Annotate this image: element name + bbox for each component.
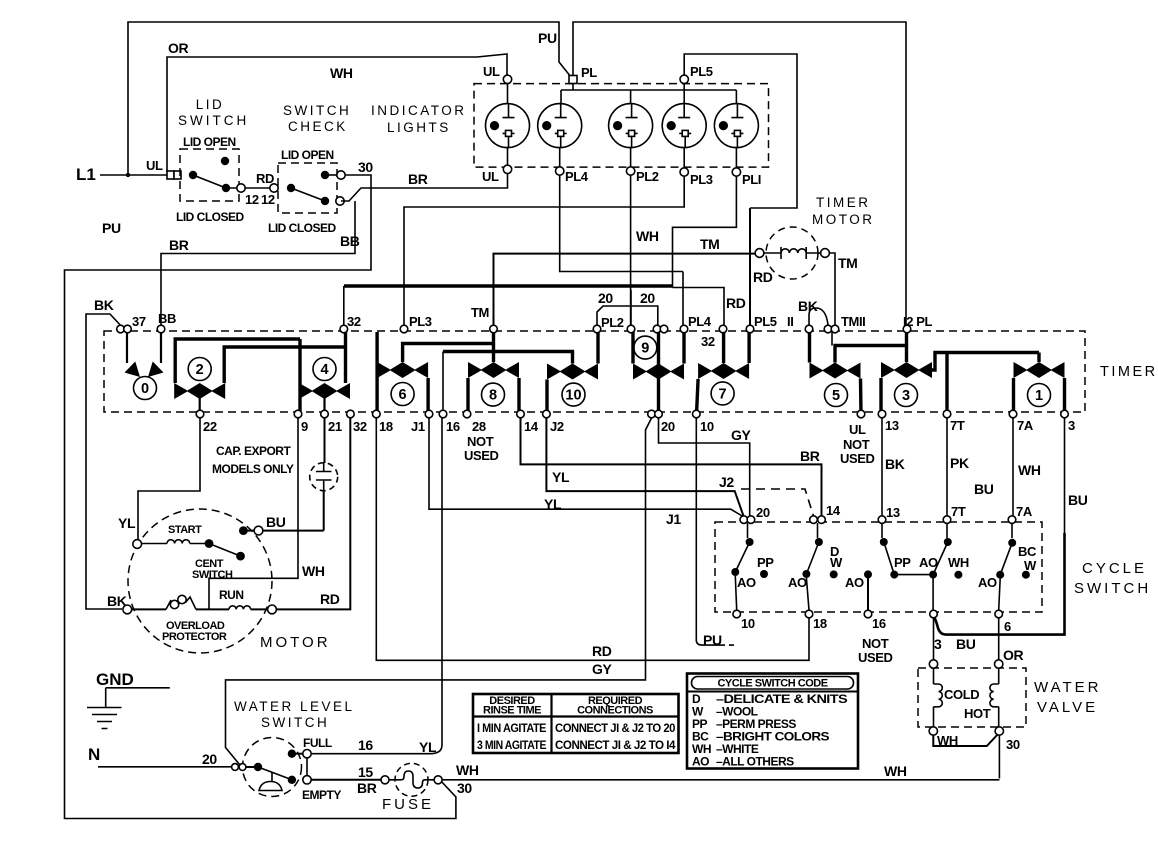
svg-text:RD: RD [320, 591, 340, 607]
wire 7T to cycle 7T [946, 418, 948, 516]
timer bottom terminal J2 [543, 410, 551, 418]
svg-text:10: 10 [741, 616, 755, 631]
timer top terminal PL2 [593, 325, 601, 333]
wire RD (timer terminal to junction) [673, 288, 725, 326]
water valve cold solenoid [934, 668, 943, 731]
svg-text:GND: GND [96, 670, 134, 689]
svg-text:BC: BC [1018, 544, 1037, 559]
timer top terminal PL5 [746, 325, 754, 333]
timer top terminal PL4 [680, 325, 688, 333]
svg-text:9: 9 [641, 341, 649, 357]
svg-text:WH: WH [636, 228, 659, 244]
timer contact 7 [697, 329, 750, 414]
svg-text:BK: BK [885, 456, 905, 472]
wire 7A to cycle 7A [1012, 418, 1014, 516]
svg-text:L1: L1 [76, 165, 96, 184]
svg-text:CONNECTIONS: CONNECTIONS [577, 705, 653, 717]
svg-text:J2: J2 [719, 474, 734, 490]
svg-text:20: 20 [661, 419, 675, 434]
timer top terminal TM [490, 325, 498, 333]
timer top terminal TMII pair [824, 325, 832, 333]
svg-text:SWITCH: SWITCH [283, 103, 351, 118]
water level EMPTY terminal [303, 776, 311, 784]
svg-text:TM: TM [838, 255, 857, 271]
cycle switch dashed box [715, 522, 1042, 612]
svg-text:AO: AO [692, 755, 709, 769]
wire 20 bracket (PL2 terminal link) [597, 290, 658, 325]
svg-text:PU: PU [538, 30, 557, 46]
motor cent switch contact to BU [239, 526, 248, 535]
switch check LID CLOSED contact [321, 197, 329, 205]
svg-text:2: 2 [196, 362, 204, 378]
water valve top terminal right (OR) [995, 660, 1003, 668]
svg-text:14: 14 [524, 419, 539, 434]
svg-text:TMII: TMII [841, 314, 865, 329]
svg-text:6: 6 [399, 387, 407, 403]
wire PU (L1 to lamp common PL) [128, 22, 571, 175]
svg-text:LID OPEN: LID OPEN [183, 135, 236, 149]
svg-text:USED: USED [858, 650, 893, 665]
timer motor left terminal [755, 249, 764, 258]
svg-text:AO: AO [788, 575, 807, 590]
svg-text:FULL: FULL [303, 736, 332, 750]
timer bottom terminal 16 [439, 410, 447, 418]
svg-text:RD: RD [256, 171, 274, 186]
lid switch dashed box [180, 149, 239, 201]
motor terminal BU [254, 526, 263, 535]
svg-text:3: 3 [902, 388, 910, 404]
svg-text:0: 0 [141, 381, 149, 397]
svg-text:BR: BR [408, 171, 428, 187]
timer bottom terminal 14 [517, 410, 525, 418]
svg-text:YL: YL [552, 469, 570, 485]
wire J2 [546, 418, 743, 516]
timer top terminal 32r [719, 325, 727, 333]
motor run line with overload protector [132, 608, 166, 610]
svg-text:YL: YL [419, 739, 437, 755]
rinse time table [473, 694, 679, 753]
svg-text:USED: USED [464, 448, 499, 463]
wire 9 to motor WH tap [209, 418, 298, 609]
terminal UL bottom [503, 165, 511, 173]
indicator lights dashed box [474, 84, 769, 168]
svg-text:SWITCH: SWITCH [261, 715, 329, 730]
lamp PL4 (indicator light 2) [538, 104, 582, 167]
wire WH long (fuse to water valve) [442, 779, 999, 781]
wire 30 loop (to fuse) [65, 175, 456, 819]
timer bottom terminal 21 [321, 410, 329, 418]
svg-text:INDICATOR: INDICATOR [371, 103, 467, 118]
svg-text:AO: AO [978, 575, 997, 590]
cycle switch pole 13 [880, 523, 895, 575]
svg-text:YL: YL [118, 515, 136, 531]
svg-text:WH: WH [884, 763, 907, 779]
svg-text:6: 6 [1004, 619, 1011, 634]
timer top terminal 20 pair [653, 325, 661, 333]
svg-text:3: 3 [1068, 418, 1075, 433]
fuse F1 [381, 763, 442, 796]
terminal PL5 [680, 75, 688, 83]
svg-text:UL: UL [849, 422, 866, 437]
svg-text:UL: UL [483, 64, 500, 79]
thick bus 32 feed [344, 284, 673, 287]
svg-text:22: 22 [203, 419, 217, 434]
ground symbol [106, 688, 170, 707]
svg-text:TM: TM [700, 236, 719, 252]
lamp UL (indicator light 1) [486, 84, 530, 165]
timer contact 8 [468, 329, 519, 414]
svg-text:W: W [1024, 558, 1037, 573]
wire PL (lamp common to timer terminal 12) [573, 22, 906, 325]
lid switch pivot contact [189, 171, 197, 179]
svg-text:UL: UL [482, 169, 499, 184]
lid switch output terminal 12 [230, 187, 274, 189]
svg-text:J1: J1 [411, 419, 425, 434]
common bar PP-AO [894, 574, 933, 576]
timer bottom terminal UL not used [857, 410, 865, 418]
svg-text:7A: 7A [1017, 418, 1034, 433]
svg-text:1: 1 [1035, 388, 1043, 404]
wire 32 top vertical [343, 286, 345, 325]
terminal PL4 bottom [556, 167, 564, 175]
svg-text:START: START [168, 524, 202, 536]
wire GY short (20 to cycle 20) [659, 418, 750, 516]
timer bottom terminal J1 [425, 410, 433, 418]
svg-text:20: 20 [598, 290, 613, 306]
svg-text:20: 20 [756, 505, 770, 520]
svg-text:PL2: PL2 [601, 315, 624, 330]
svg-text:PL3: PL3 [690, 172, 713, 187]
svg-text:32: 32 [701, 334, 715, 349]
wire BK arc (II to TMII) [809, 308, 828, 325]
water level arm to EMPTY [258, 767, 292, 780]
timer terminal 37 [117, 325, 125, 333]
svg-text:OR: OR [1003, 647, 1023, 663]
water valve WH bus [933, 735, 997, 747]
motor centrifugal switch common [205, 539, 214, 548]
motor dashed circle [128, 509, 272, 653]
timer dashed box [104, 331, 1085, 412]
svg-text:J2: J2 [550, 419, 564, 434]
water valve bottom terminal WH [929, 727, 937, 735]
svg-text:WATER: WATER [1034, 679, 1102, 696]
svg-text:CHECK: CHECK [288, 119, 348, 134]
lamp supply bus [561, 83, 736, 104]
svg-text:CONNECT JI & J2 TO 20: CONNECT JI & J2 TO 20 [555, 721, 676, 735]
timer top terminal 20b [627, 325, 635, 333]
cycle input terminal 14 pair [810, 516, 818, 524]
svg-text:21: 21 [328, 419, 342, 434]
svg-text:30: 30 [457, 780, 472, 796]
svg-text:10: 10 [565, 388, 581, 404]
wire 3 to water valve cold [933, 618, 935, 660]
svg-text:37: 37 [132, 314, 146, 329]
svg-text:I MIN AGITATE: I MIN AGITATE [477, 721, 546, 735]
svg-text:20: 20 [640, 290, 655, 306]
terminal PL [569, 76, 577, 84]
svg-text:PLI: PLI [742, 172, 761, 187]
svg-text:LIGHTS: LIGHTS [387, 120, 451, 135]
wire GY long (20 pair to water level) [226, 418, 652, 767]
svg-text:28: 28 [472, 419, 486, 434]
svg-text:LID: LID [196, 97, 225, 112]
timer contact 4 [299, 332, 350, 414]
motor run winding [229, 606, 251, 610]
svg-text:–ALL OTHERS: –ALL OTHERS [716, 755, 794, 769]
svg-text:13: 13 [885, 418, 899, 433]
water valve dashed box [918, 668, 1026, 727]
svg-text:TIMER: TIMER [1100, 364, 1158, 380]
svg-text:BU: BU [956, 636, 976, 652]
svg-text:7T: 7T [950, 418, 965, 433]
switch check dashed box [278, 163, 337, 213]
timer motor coil [764, 247, 821, 259]
lamp PL2 (indicator light 3) [609, 104, 653, 167]
svg-text:EMPTY: EMPTY [302, 788, 341, 802]
svg-text:LID OPEN: LID OPEN [281, 148, 334, 162]
svg-text:NOT: NOT [843, 437, 870, 452]
wire WH (lamp PL2 down to timer) [630, 175, 632, 325]
timer bottom terminal 10 [693, 410, 701, 418]
svg-text:PL: PL [581, 65, 597, 80]
junction L1/PU [126, 173, 130, 177]
svg-text:RUN: RUN [219, 588, 244, 602]
wire PL4 (lamp PL4 down) [560, 175, 683, 272]
timer bottom terminal 7T [943, 410, 951, 418]
svg-text:PL4: PL4 [565, 169, 589, 184]
cycle switch lone AO contact (16 not used) [845, 570, 872, 610]
svg-text:LID CLOSED: LID CLOSED [176, 210, 245, 224]
timer bottom terminal 22 [196, 410, 204, 418]
svg-text:MOTOR: MOTOR [260, 634, 331, 651]
svg-text:15: 15 [358, 764, 373, 780]
svg-text:BR: BR [357, 780, 377, 796]
motor terminal RD [268, 605, 277, 614]
timer bottom terminal 7A [1009, 410, 1017, 418]
wire RD motor to timer 32 [276, 418, 350, 609]
wire 13 to cycle 13 [881, 418, 883, 516]
svg-text:UL: UL [146, 158, 163, 173]
svg-text:BU: BU [974, 481, 994, 497]
timer bottom terminal 9 [294, 410, 302, 418]
motor terminal BK [123, 605, 132, 614]
timer bottom terminal 13 [878, 410, 886, 418]
wire BB (switch check to timer BB) [161, 201, 355, 325]
svg-text:32: 32 [353, 419, 367, 434]
svg-text:MOTOR: MOTOR [812, 212, 875, 227]
svg-text:PK: PK [950, 455, 969, 471]
wire PL1 (lamp PL1 down) [673, 176, 737, 325]
cycle output terminal 10 [733, 610, 741, 618]
svg-text:PP: PP [757, 555, 774, 570]
svg-text:4: 4 [320, 362, 328, 378]
wire N input [98, 766, 233, 768]
timer bottom terminal 3 [1061, 410, 1069, 418]
svg-text:AO: AO [845, 575, 864, 590]
svg-text:14: 14 [826, 503, 841, 518]
cycle switch code table [687, 674, 858, 769]
cycle output terminal 16 not used [864, 610, 872, 618]
svg-text:PL4: PL4 [688, 314, 712, 329]
terminal PL2 bottom [626, 167, 634, 175]
svg-text:RD: RD [592, 643, 612, 659]
wire PL5 (lamp4 to timer PL5) [684, 54, 797, 208]
wire J1 [429, 418, 744, 517]
svg-text:AO: AO [737, 575, 756, 590]
svg-text:BR: BR [800, 448, 820, 464]
svg-text:CYCLE: CYCLE [1082, 560, 1147, 577]
svg-text:WH: WH [302, 563, 325, 579]
timer contact 3 [881, 329, 1039, 414]
terminal PL3 bottom [680, 168, 688, 176]
svg-text:9: 9 [301, 419, 308, 434]
switch check LID OPEN output terminal 30 [329, 174, 341, 176]
svg-text:BU: BU [266, 514, 286, 530]
cycle output terminal 18 [805, 610, 813, 618]
wire water valve to WH long [998, 735, 1000, 779]
water valve top terminal left [929, 660, 937, 668]
svg-text:CONNECT JI & J2 TO I4: CONNECT JI & J2 TO I4 [555, 738, 676, 752]
lid switch LID OPEN contact [221, 157, 229, 165]
cycle switch pole 7T [890, 523, 969, 610]
water level pendulum [259, 772, 282, 791]
svg-text:BU: BU [1068, 492, 1088, 508]
terminal PL1 bottom [732, 168, 740, 176]
timer bottom terminal 20 pair [648, 410, 656, 418]
svg-text:RD: RD [753, 269, 773, 285]
svg-text:N: N [88, 745, 100, 764]
svg-text:BB: BB [158, 311, 176, 326]
cycle input terminal 13 [878, 516, 886, 524]
timer contact 2 [174, 339, 344, 414]
svg-text:3: 3 [934, 636, 942, 652]
switch check pivot contact [287, 184, 295, 192]
lid switch arm (to LID CLOSED) [193, 175, 226, 188]
svg-text:8: 8 [489, 388, 497, 404]
svg-text:J1: J1 [666, 511, 681, 527]
wire PU (timer 10 to cycle 10) [696, 418, 734, 645]
wire TM right (to TMII terminal) [829, 253, 835, 325]
timer motor dashed circle [766, 227, 818, 279]
svg-text:16: 16 [872, 616, 886, 631]
svg-text:GY: GY [592, 661, 612, 677]
svg-text:30: 30 [1006, 737, 1020, 752]
wire 15/BR (EMPTY to fuse) [311, 779, 381, 781]
svg-text:NOT: NOT [467, 434, 494, 449]
timer top terminal II [805, 325, 813, 333]
timer contact 10 [443, 329, 598, 414]
svg-text:32: 32 [347, 314, 361, 329]
switch check LID OPEN contact [321, 171, 329, 179]
wire OR (lid switch to lamp UL top) [167, 54, 507, 172]
svg-text:HOT: HOT [964, 706, 991, 721]
svg-text:SWITCH: SWITCH [1074, 580, 1151, 597]
svg-text:PP: PP [894, 555, 911, 570]
svg-text:PL5: PL5 [754, 314, 777, 329]
cycle switch pole 14 [788, 523, 843, 610]
svg-text:BK: BK [94, 297, 114, 313]
svg-text:10: 10 [700, 419, 714, 434]
timer motor right terminal [821, 249, 830, 258]
svg-text:FUSE: FUSE [382, 796, 434, 813]
svg-text:BK: BK [798, 298, 818, 314]
timer contact 1 [1014, 353, 1065, 415]
wire TM (timer TM terminal to timer motor) [494, 254, 756, 325]
lid switch LID connector [167, 171, 174, 179]
wire BR 14 to cycle switch [521, 418, 822, 516]
wire 16/YL (FULL to timer 16) [311, 418, 442, 754]
timer top terminal PL3 [400, 325, 408, 333]
svg-text:WH: WH [1018, 462, 1041, 478]
motor cent switch arm [209, 544, 241, 557]
svg-text:PL2: PL2 [636, 169, 659, 184]
svg-text:BR: BR [169, 237, 189, 253]
water level FULL terminal [303, 750, 311, 758]
timer top terminal 32 [340, 325, 348, 333]
svg-text:SWITCH: SWITCH [178, 113, 249, 128]
svg-text:GY: GY [731, 427, 751, 443]
svg-text:TM: TM [471, 305, 489, 320]
wire BU (timer 3 to water valve circuit) [1064, 418, 1066, 533]
terminal UL top [503, 75, 511, 83]
wire J2 dashed alternate to 14 [741, 489, 814, 516]
wire 21 to capacitor [324, 418, 326, 463]
timer bottom terminal 18 [373, 410, 381, 418]
svg-text:CYCLE SWITCH CODE: CYCLE SWITCH CODE [717, 678, 827, 690]
cycle output terminal 3 [930, 610, 938, 618]
motor start winding [142, 540, 210, 544]
svg-text:WH: WH [948, 555, 969, 570]
svg-text:12: 12 [245, 192, 259, 207]
svg-text:SWITCH: SWITCH [192, 569, 233, 581]
water level input connector [232, 764, 239, 771]
wire BR (switch check to lamp UL bottom) [341, 172, 508, 201]
cycle input terminal 20 pair [740, 516, 748, 524]
cycle switch pole 7A [978, 523, 1037, 610]
timer bottom terminal 32 [347, 410, 355, 418]
svg-text:5: 5 [832, 388, 840, 404]
svg-text:LID CLOSED: LID CLOSED [268, 221, 337, 235]
timer contact 0 [125, 329, 164, 400]
svg-text:TIMER: TIMER [816, 195, 871, 210]
svg-text:WATER LEVEL: WATER LEVEL [234, 699, 355, 714]
cycle output terminal 6 [995, 610, 1003, 618]
svg-text:7: 7 [719, 386, 727, 402]
svg-text:12: 12 [261, 192, 275, 207]
svg-text:COLD: COLD [944, 687, 979, 702]
cycle input terminal 7T [943, 516, 951, 524]
water level common contact [246, 766, 256, 768]
svg-text:18: 18 [379, 419, 393, 434]
svg-text:W: W [830, 555, 843, 570]
svg-text:VALVE: VALVE [1037, 699, 1098, 716]
cycle switch pole 20 [731, 523, 774, 610]
wire PL3 (lamp PL3 to timer PL3) [404, 176, 684, 325]
svg-text:AO: AO [919, 555, 938, 570]
wire 22 to motor YL [138, 418, 200, 540]
svg-text:18: 18 [813, 616, 827, 631]
timer contact 6 [377, 332, 493, 414]
overload protector [166, 595, 196, 609]
svg-text:PU: PU [703, 632, 722, 648]
svg-text:16: 16 [446, 419, 460, 434]
svg-text:16: 16 [358, 737, 373, 753]
water valve bottom terminal 30 [995, 727, 1003, 735]
timer contact 9 [633, 329, 684, 414]
svg-text:20: 20 [202, 751, 217, 767]
svg-text:OR: OR [168, 40, 188, 56]
water level switch dashed circle [243, 738, 302, 797]
